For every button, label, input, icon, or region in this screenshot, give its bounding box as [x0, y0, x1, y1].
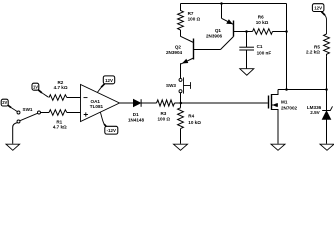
- ground under M1 source: [271, 144, 285, 150]
- wire R1 to op-amp non-inverting input: [67, 112, 81, 114]
- wire reference node down to LM336: [326, 90, 328, 111]
- svg-text:R4: R4: [188, 114, 194, 119]
- transistor Q1 2N3906: [221, 18, 247, 49]
- wire node A down to R4: [180, 103, 182, 108]
- svg-text:100 nF: 100 nF: [257, 50, 272, 55]
- transistor Q2 2N3904: [181, 36, 221, 64]
- switch SW3 pushbutton: [179, 77, 191, 93]
- resistor R1: [49, 110, 67, 116]
- svg-text:2N7002: 2N7002: [281, 106, 298, 111]
- svg-text:12V: 12V: [314, 6, 322, 11]
- node A junction dot: [180, 102, 183, 105]
- wire C1 top stub: [246, 32, 248, 48]
- ground under C1: [240, 69, 254, 76]
- wire top rail: [181, 3, 287, 5]
- svg-text:1V: 1V: [33, 84, 38, 89]
- svg-text:100 Ω: 100 Ω: [188, 17, 201, 22]
- wire Q1 emitter to rail: [221, 4, 223, 19]
- wire R7 top to rail: [180, 4, 182, 9]
- resistor R7: [178, 8, 184, 30]
- svg-text:TL081: TL081: [90, 104, 104, 109]
- wire drain net horizontal: [278, 89, 327, 91]
- ground under SW1: [6, 144, 20, 150]
- switch SW1: [17, 111, 41, 123]
- wire R2 to op-amp inverting input: [67, 97, 81, 99]
- ground under LM336: [320, 144, 334, 150]
- svg-text:10 kΩ: 10 kΩ: [256, 20, 269, 25]
- wire SW1 to R1: [41, 112, 50, 114]
- svg-text:R7: R7: [188, 11, 194, 16]
- source VEE -12V flag (op-amp): [105, 126, 118, 134]
- wire SW3 to Q2 emitter: [180, 63, 182, 78]
- svg-text:R3: R3: [160, 111, 166, 116]
- svg-text:M1: M1: [281, 99, 288, 104]
- svg-text:2.2 kΩ: 2.2 kΩ: [306, 50, 320, 55]
- svg-text:10 kΩ: 10 kΩ: [188, 120, 201, 125]
- svg-text:4.7 kΩ: 4.7 kΩ: [54, 85, 68, 90]
- svg-text:12V: 12V: [105, 78, 113, 83]
- capacitor C1: [239, 47, 254, 50]
- ground under R4: [174, 144, 188, 150]
- resistor R6: [253, 29, 273, 35]
- source V2 1V flag: [32, 83, 49, 97]
- resistor R3: [157, 100, 175, 106]
- svg-text:2.5V: 2.5V: [310, 110, 320, 115]
- svg-text:C1: C1: [257, 44, 263, 49]
- wire op-amp V- pin to -12V flag: [100, 112, 106, 126]
- junction dot drain net / reference node: [325, 88, 328, 91]
- source V3 2V flag: [1, 99, 17, 111]
- svg-text:SW1: SW1: [23, 107, 33, 112]
- svg-text:1N4148: 1N4148: [128, 117, 145, 122]
- svg-text:Q2: Q2: [175, 44, 182, 49]
- svg-text:D1: D1: [133, 112, 139, 117]
- resistor R2: [49, 95, 67, 101]
- wire D1 to R3: [141, 102, 156, 104]
- svg-text:2N3904: 2N3904: [166, 50, 183, 55]
- wire Q2 collector to R7: [180, 30, 182, 37]
- source V1 12V flag (top right): [312, 4, 326, 34]
- svg-text:-12V: -12V: [107, 128, 116, 133]
- wire LM336 to ground: [326, 119, 328, 144]
- wire R3 to node A: [175, 102, 181, 104]
- resistor R4: [178, 108, 184, 129]
- junction dot rail/Q1 emitter: [220, 2, 223, 5]
- wire node B to R6: [247, 31, 253, 33]
- wire SW1 bottom contact to ground: [13, 123, 18, 144]
- wire op-amp V+ pin to 12V flag: [97, 84, 104, 93]
- svg-text:Q1: Q1: [215, 28, 222, 33]
- wire right rail vertical: [286, 4, 288, 90]
- wire R5 bottom to reference node: [326, 56, 328, 89]
- wire R6 to right rail: [273, 31, 287, 33]
- wire R4 to ground: [180, 129, 182, 144]
- wire C1 bottom to ground: [246, 50, 248, 68]
- junction dot right rail / drain net: [285, 88, 288, 91]
- resistor R5: [324, 34, 330, 56]
- svg-text:100 Ω: 100 Ω: [157, 117, 170, 122]
- diode D1 1N4148: [133, 99, 141, 107]
- svg-text:2N3906: 2N3906: [206, 33, 223, 38]
- svg-text:4.7 kΩ: 4.7 kΩ: [53, 124, 67, 129]
- svg-text:SW3: SW3: [166, 83, 176, 88]
- wire op-amp output to D1: [120, 102, 135, 104]
- svg-text:2V: 2V: [2, 100, 7, 105]
- junction dot node B (C1 top): [245, 30, 248, 33]
- wire node A up to SW3: [180, 93, 182, 103]
- zener reference U1 LM336 2.5V: [322, 106, 332, 119]
- junction dot R6/right rail: [285, 30, 288, 33]
- wire node A to M1 gate: [181, 102, 268, 104]
- source VCC 12V flag (op-amp): [103, 76, 114, 84]
- mosfet M1 2N7002: [269, 90, 279, 144]
- svg-text:R6: R6: [258, 14, 264, 19]
- op-amp OA1 TL081: [81, 85, 120, 122]
